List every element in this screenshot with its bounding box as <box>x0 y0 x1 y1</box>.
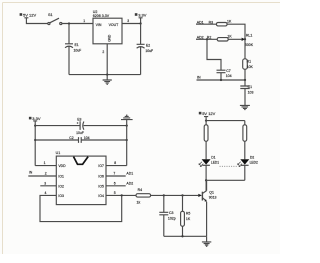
label R4 <box>137 188 143 204</box>
capacitor E2 <box>137 24 145 75</box>
wire D1 cathode down <box>205 165 207 190</box>
svg-text:10K: 10K <box>247 65 254 69</box>
svg-text:AD1: AD1 <box>197 20 204 24</box>
U2 pin numbers <box>83 19 129 54</box>
wire U2 VOUT to +3.3V <box>122 23 141 25</box>
node junction pin5/pin4 <box>121 194 123 196</box>
svg-text:VOUT: VOUT <box>109 23 120 27</box>
label C7 <box>226 69 232 78</box>
svg-text:C3: C3 <box>169 211 174 215</box>
node junction RL1 <box>244 38 246 40</box>
wire emitter bottom rail <box>164 235 207 237</box>
wire rail2 right <box>81 139 127 141</box>
wire gnd vertical <box>126 120 128 166</box>
label R1 <box>247 59 254 69</box>
LED D2 <box>240 159 249 165</box>
node junction R5 <box>181 194 183 196</box>
svg-text:6: 6 <box>114 181 116 185</box>
node junction rail1 <box>34 124 36 126</box>
label C2 <box>69 136 89 140</box>
node junction C3 <box>163 194 165 196</box>
svg-text:R1: R1 <box>247 59 252 63</box>
wire R7 to D2 <box>244 141 246 159</box>
svg-text:1: 1 <box>83 19 85 23</box>
svg-text:7: 7 <box>113 172 115 176</box>
wire rail2 left <box>35 139 78 141</box>
svg-text:D1: D1 <box>211 155 215 159</box>
wire rail1 right <box>84 125 127 127</box>
wire AD2 to C7 <box>207 39 221 70</box>
regulator U2 <box>93 18 122 44</box>
power flag +5V 12V <box>24 18 47 24</box>
wire AD1 row <box>196 24 245 39</box>
capacitor C7 <box>217 70 226 80</box>
wire RL1 to R1 <box>244 39 246 59</box>
svg-text:2: 2 <box>102 50 104 54</box>
svg-text:104: 104 <box>226 74 232 78</box>
label D2 LED2 <box>250 155 258 164</box>
switch S1 <box>48 18 62 24</box>
node junction R5 bottom <box>181 235 183 237</box>
capacitor E1 <box>65 24 73 75</box>
wire pin6 AD2 <box>106 185 126 187</box>
label E1 <box>74 43 82 53</box>
svg-text:IO6: IO6 <box>98 175 104 179</box>
wire R6 to D1 <box>205 141 207 159</box>
svg-text:IO7: IO7 <box>98 164 104 168</box>
svg-text:5: 5 <box>114 191 116 195</box>
node junction E2 <box>139 22 141 24</box>
svg-text:E2: E2 <box>146 44 150 48</box>
label +3.3V <box>135 13 138 16</box>
wire right branch top <box>244 121 246 125</box>
svg-text:E3: E3 <box>77 118 81 122</box>
D2 emission arrows <box>238 162 242 167</box>
ground <box>240 105 250 109</box>
svg-text:103: 103 <box>248 91 254 95</box>
wire U2 GND pin <box>106 44 108 75</box>
svg-text:U2: U2 <box>93 10 98 14</box>
svg-text:AD2: AD2 <box>126 181 133 185</box>
wiper arrow into RL1 node <box>242 38 245 41</box>
wire pin5 IO4 <box>106 194 136 196</box>
resistor R1 <box>243 59 248 69</box>
wire pin7 AD1 <box>106 175 126 177</box>
node junction E1 <box>68 22 70 24</box>
wire LED bottom rail <box>206 179 245 181</box>
capacitor C2 <box>79 137 82 143</box>
resistor R2 <box>217 38 228 41</box>
ground (inverted) <box>121 115 133 119</box>
label RL1 <box>245 33 254 46</box>
svg-text:3.3V: 3.3V <box>32 116 41 121</box>
svg-text:102p: 102p <box>168 217 176 221</box>
wire pin1 VDD <box>35 165 56 167</box>
svg-text:E1: E1 <box>75 43 79 47</box>
svg-text:IN: IN <box>29 171 33 175</box>
label E2 <box>145 44 153 54</box>
svg-text:1K: 1K <box>186 217 191 221</box>
capacitor C1 <box>240 80 249 105</box>
U2 pin names <box>96 23 120 27</box>
svg-text:5V 12V: 5V 12V <box>202 111 215 116</box>
svg-text:C2: C2 <box>69 136 73 140</box>
wire IN line <box>197 79 246 81</box>
label +3.3V (MCU) <box>29 117 32 120</box>
wire switch to U2 <box>62 23 93 25</box>
wire rail1 left <box>35 125 80 127</box>
wire AD2 row <box>196 38 242 40</box>
U1 pin names left <box>58 164 66 198</box>
capacitor C3 <box>159 195 168 236</box>
svg-text:IO1: IO1 <box>58 175 64 179</box>
resistor R6 <box>204 125 208 142</box>
wire top rail LEDs <box>206 120 245 122</box>
svg-text:LED2: LED2 <box>250 161 258 165</box>
wire pin8 to gnd <box>106 165 127 167</box>
svg-text:AD1: AD1 <box>126 172 133 176</box>
svg-text:1K: 1K <box>227 19 232 23</box>
power flag +5V 12V (LED) <box>204 117 208 121</box>
node junction gnd <box>106 73 108 75</box>
svg-text:1K: 1K <box>227 35 232 39</box>
label C1 <box>248 85 254 95</box>
wire pin2 IN <box>28 175 56 177</box>
svg-text:GND: GND <box>108 34 112 42</box>
transistor Q1 <box>198 180 207 236</box>
node junction supply <box>205 119 207 121</box>
svg-text:6206 3.3V: 6206 3.3V <box>93 14 110 18</box>
ground <box>202 237 211 247</box>
resistor R3 <box>216 23 227 26</box>
svg-text:5V 12V: 5V 12V <box>23 12 36 17</box>
node junction C7/IN <box>220 79 222 81</box>
label E3 <box>76 118 84 135</box>
D1 emission arrows <box>199 162 203 167</box>
LED D1 <box>202 159 211 165</box>
node junction D1/collector <box>205 179 207 181</box>
node junction rail2 right <box>126 139 128 141</box>
svg-text:9013: 9013 <box>209 196 217 200</box>
svg-text:104: 104 <box>84 136 90 140</box>
svg-text:IO5: IO5 <box>98 184 104 188</box>
orientation notch <box>74 157 89 165</box>
svg-text:C7: C7 <box>226 69 231 73</box>
wire bottom rail <box>69 74 141 76</box>
node junction rail1 right <box>126 124 128 126</box>
svg-text:VDD: VDD <box>58 164 66 168</box>
label Q1 <box>209 191 217 200</box>
svg-text:RL1: RL1 <box>246 33 252 37</box>
svg-text:Q1: Q1 <box>209 191 214 195</box>
MCU U1 <box>56 156 106 205</box>
svg-text:500K: 500K <box>245 43 254 47</box>
label +5V 12V <box>20 13 23 16</box>
label +5V 12V (LED) <box>199 112 202 115</box>
node junction R1/IN <box>244 79 246 81</box>
svg-text:AD2: AD2 <box>197 35 204 39</box>
svg-text:IO2: IO2 <box>58 184 64 188</box>
svg-text:LED1: LED1 <box>211 161 219 165</box>
svg-text:R2: R2 <box>207 35 212 39</box>
wire left branch top <box>205 121 207 125</box>
label U2 <box>93 10 110 18</box>
svg-text:2: 2 <box>45 172 47 176</box>
svg-text:IO4: IO4 <box>98 194 104 198</box>
wire R4 to Q1 base <box>151 194 199 196</box>
node junction AD2 drop <box>206 38 208 40</box>
ground <box>103 75 112 85</box>
resistor R7 <box>243 125 247 142</box>
svg-text:U1: U1 <box>56 151 61 155</box>
svg-text:10uF: 10uF <box>74 49 82 53</box>
wire R1 to IN line <box>244 69 246 80</box>
svg-text:R3: R3 <box>209 20 214 24</box>
label D1 LED1 <box>211 155 219 164</box>
svg-text:C1: C1 <box>248 85 253 89</box>
svg-text:IN: IN <box>197 76 201 80</box>
label R5 <box>186 212 191 221</box>
U1 pin numbers <box>44 161 117 195</box>
svg-text:3: 3 <box>127 19 129 23</box>
svg-text:R5: R5 <box>186 212 191 216</box>
power flag +3.3V (MCU) <box>33 121 37 166</box>
svg-text:10uF: 10uF <box>145 49 153 53</box>
dashed pair link <box>220 165 237 167</box>
label C3 <box>168 211 176 221</box>
node junction rail2 left <box>34 139 36 141</box>
svg-text:S1: S1 <box>48 13 53 17</box>
wire D2 cathode down <box>244 165 246 180</box>
U1 pin names right <box>98 164 104 198</box>
svg-text:D2: D2 <box>250 155 254 159</box>
svg-text:3: 3 <box>44 181 46 185</box>
capacitor E3 <box>77 121 84 130</box>
resistor R4 <box>136 194 151 197</box>
svg-text:4: 4 <box>45 191 47 195</box>
svg-text:R4: R4 <box>138 188 143 192</box>
svg-text:10uF: 10uF <box>76 131 84 135</box>
svg-text:IO3: IO3 <box>58 194 64 198</box>
power flag +3.3V <box>139 18 143 24</box>
wire pin3 stub <box>40 185 56 187</box>
resistor R5 <box>181 195 185 236</box>
svg-text:VIN: VIN <box>96 23 102 27</box>
svg-text:3.3V: 3.3V <box>138 12 147 17</box>
svg-text:1k: 1k <box>137 200 141 204</box>
wire pin4 IO3 <box>40 195 122 221</box>
svg-text:1: 1 <box>44 161 46 165</box>
svg-text:8: 8 <box>114 161 116 165</box>
